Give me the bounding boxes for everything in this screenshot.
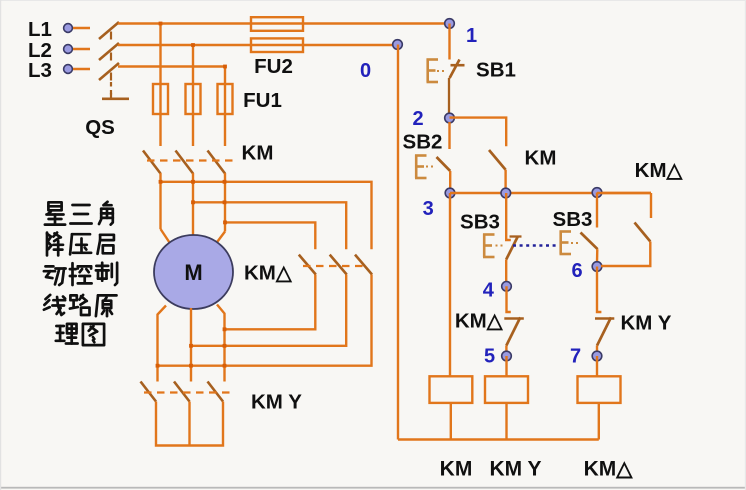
svg-text:KM△: KM△: [244, 262, 293, 285]
svg-text:KM Y: KM Y: [251, 391, 302, 414]
svg-text:M: M: [184, 260, 202, 285]
svg-text:KM Y: KM Y: [489, 457, 541, 480]
svg-text:5: 5: [484, 346, 495, 368]
svg-text:L3: L3: [28, 59, 52, 82]
svg-text:SB3: SB3: [460, 210, 500, 233]
svg-text:KM△: KM△: [635, 159, 684, 182]
svg-text:SB2: SB2: [403, 131, 443, 154]
svg-text:KM△: KM△: [455, 310, 504, 333]
svg-text:KM△: KM△: [584, 458, 634, 481]
svg-text:0: 0: [360, 60, 371, 82]
svg-text:3: 3: [423, 198, 434, 220]
svg-text:6: 6: [571, 260, 582, 282]
svg-text:KM: KM: [440, 457, 473, 480]
svg-text:7: 7: [570, 346, 581, 368]
svg-text:SB3: SB3: [553, 208, 593, 231]
svg-text:2: 2: [412, 108, 423, 130]
svg-text:1: 1: [466, 25, 477, 47]
svg-text:L1: L1: [28, 18, 52, 41]
svg-text:KM Y: KM Y: [621, 312, 672, 335]
svg-text:FU1: FU1: [243, 89, 282, 112]
svg-text:KM: KM: [525, 147, 557, 170]
svg-text:4: 4: [483, 280, 495, 302]
svg-text:QS: QS: [85, 116, 115, 139]
svg-text:KM: KM: [242, 142, 274, 165]
svg-text:SB1: SB1: [476, 59, 516, 82]
svg-text:FU2: FU2: [254, 55, 293, 78]
